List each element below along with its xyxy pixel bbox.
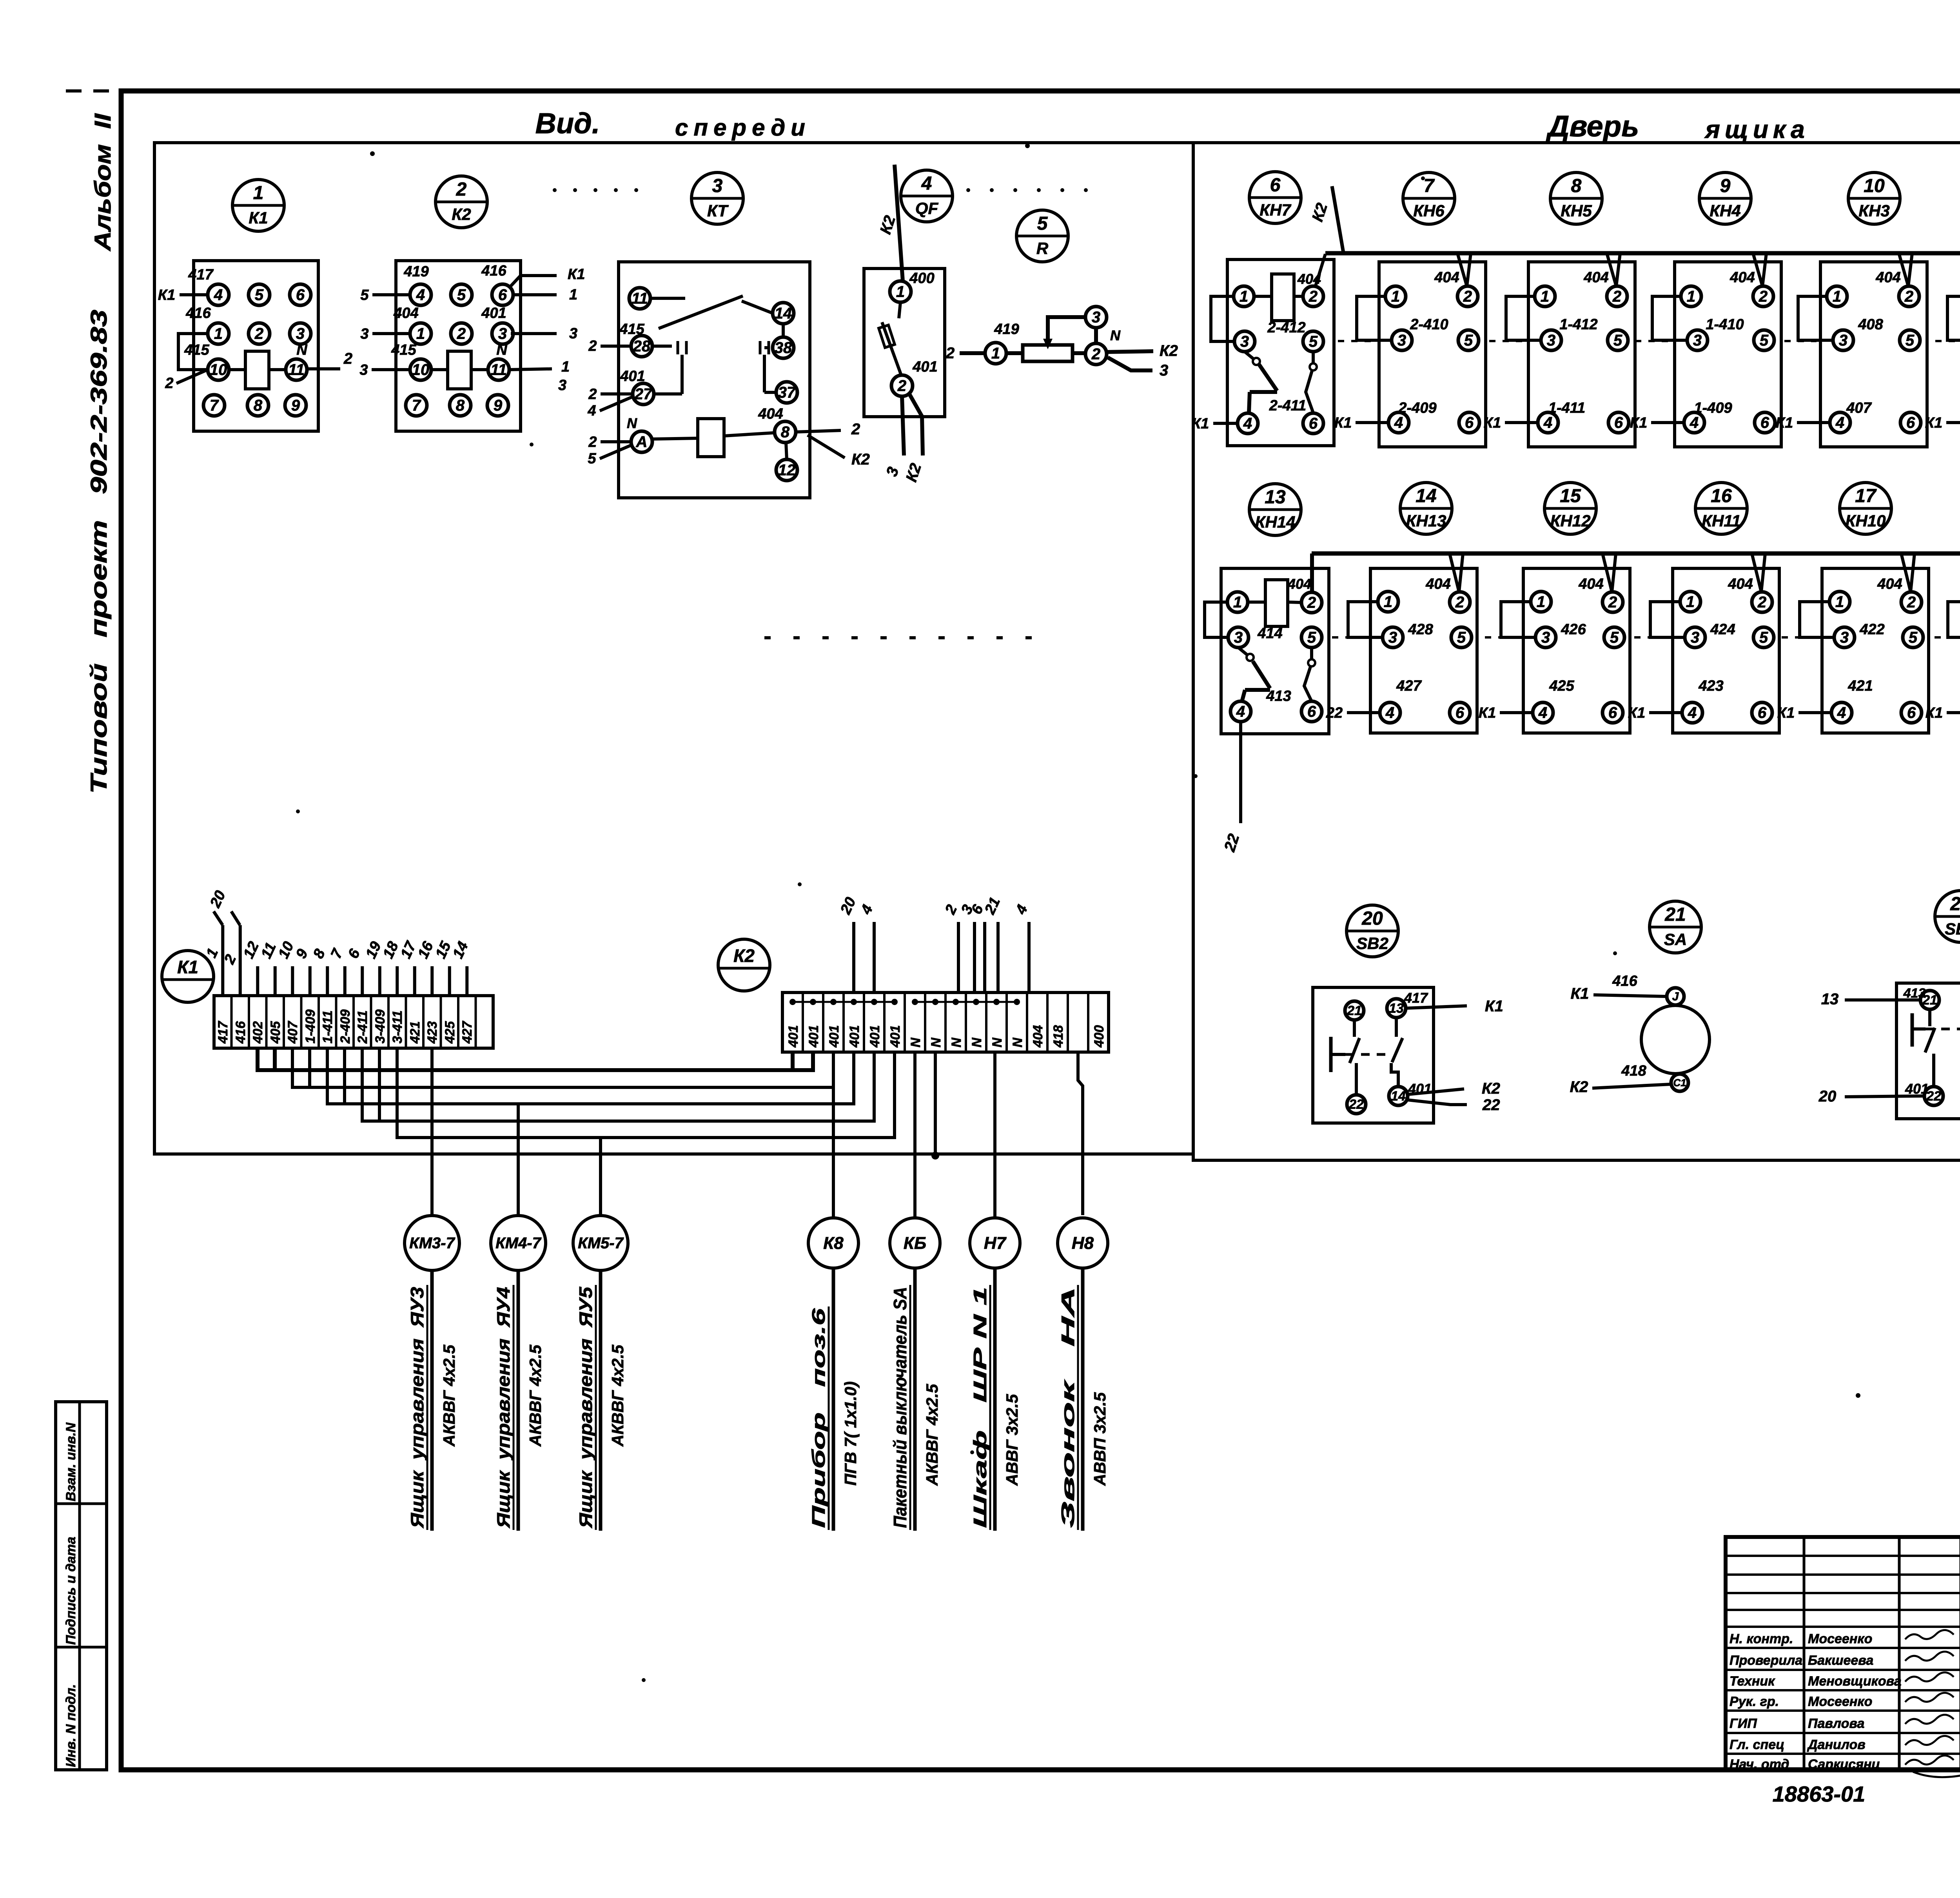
- svg-text:404: 404: [1728, 576, 1753, 592]
- svg-text:КН7: КН7: [1259, 201, 1291, 219]
- svg-text:Звонок НА: Звонок НА: [1058, 1287, 1078, 1528]
- svg-text:5: 5: [1307, 629, 1316, 646]
- svg-text:428: 428: [1408, 621, 1433, 638]
- svg-text:3: 3: [1234, 629, 1243, 646]
- left margin vertical text - project name: [86, 310, 112, 794]
- svg-text:3: 3: [558, 377, 566, 394]
- svg-text:КБ: КБ: [904, 1234, 926, 1253]
- svg-text:Нач. отд: Нач. отд: [1730, 1757, 1789, 1772]
- svg-text:3: 3: [1240, 333, 1249, 350]
- svg-text:К1: К1: [1926, 705, 1943, 721]
- svg-text:N: N: [496, 342, 508, 358]
- K2 wire lead 3 right: [511, 332, 557, 335]
- svg-text:1: 1: [569, 287, 577, 303]
- svg-text:22: 22: [1348, 1097, 1364, 1112]
- QF lead K2 bottom: [909, 393, 923, 455]
- svg-text:4: 4: [1243, 415, 1252, 432]
- svg-text:1: 1: [896, 283, 905, 301]
- QF lead 3 bottom: [902, 396, 904, 455]
- bus dip: [1752, 553, 1765, 592]
- button КН6 (pos 7): [1403, 172, 1455, 224]
- svg-text:QF: QF: [915, 199, 939, 218]
- svg-text:421: 421: [1847, 678, 1873, 694]
- svg-text:14: 14: [1416, 486, 1436, 506]
- svg-text:3: 3: [359, 362, 368, 378]
- svg-text:418: 418: [1051, 1025, 1066, 1048]
- svg-text:404: 404: [1730, 269, 1755, 286]
- svg-text:11: 11: [632, 290, 648, 307]
- svg-text:2: 2: [1612, 288, 1621, 305]
- svg-text:2: 2: [1904, 288, 1913, 305]
- svg-text:2: 2: [851, 421, 860, 438]
- button КН13 (pos 14): [1400, 483, 1452, 534]
- svg-text:401: 401: [1905, 1081, 1929, 1097]
- bus dip: [1450, 553, 1463, 592]
- svg-text:1-409: 1-409: [303, 1009, 318, 1043]
- cable КМ4-7: [491, 1216, 546, 1270]
- svg-text:Вид.: Вид.: [535, 107, 600, 140]
- svg-text:КМ4-7: КМ4-7: [495, 1235, 541, 1252]
- svg-text:Мосеенко: Мосеенко: [1808, 1694, 1872, 1709]
- circuit breaker QF (pos 4): [901, 170, 953, 222]
- svg-text:6: 6: [1270, 175, 1281, 196]
- svg-text:2-412: 2-412: [1267, 319, 1305, 336]
- svg-text:3: 3: [1160, 362, 1168, 379]
- svg-text:407: 407: [285, 1020, 300, 1044]
- svg-text:2-411: 2-411: [355, 1011, 370, 1044]
- svg-text:11: 11: [490, 361, 507, 379]
- svg-text:21: 21: [1664, 904, 1686, 925]
- svg-text:3-409: 3-409: [373, 1009, 388, 1043]
- K2 wire lead 1 3 right: [510, 369, 552, 370]
- svg-text:N: N: [929, 1037, 944, 1047]
- bus dip: [1753, 253, 1766, 286]
- svg-text:2: 2: [946, 345, 955, 362]
- svg-text:404: 404: [1877, 576, 1902, 592]
- svg-text:1: 1: [1835, 593, 1844, 611]
- bus dip KN7: [1316, 254, 1325, 286]
- svg-text:КН4: КН4: [1710, 201, 1741, 220]
- svg-text:404: 404: [1031, 1025, 1045, 1048]
- svg-text:1: 1: [1537, 593, 1545, 611]
- svg-text:Взам. инв.N: Взам. инв.N: [64, 1422, 78, 1501]
- svg-text:13: 13: [1821, 991, 1839, 1008]
- svg-text:1: 1: [1240, 288, 1248, 305]
- svg-text:К2: К2: [851, 451, 870, 468]
- svg-text:К2: К2: [1570, 1078, 1588, 1096]
- bus dip KN14: [1310, 553, 1314, 593]
- svg-text:6: 6: [296, 287, 305, 304]
- svg-text:401: 401: [847, 1025, 862, 1048]
- svg-text:Ящик управления ЯУ3: Ящик управления ЯУ3: [407, 1287, 427, 1529]
- svg-text:14: 14: [1391, 1089, 1406, 1104]
- svg-text:6: 6: [1608, 704, 1617, 722]
- wire bundle W3: [327, 1048, 854, 1104]
- svg-text:2: 2: [588, 434, 597, 450]
- bus dip: [1602, 553, 1616, 592]
- svg-text:2: 2: [1759, 288, 1768, 305]
- svg-text:3: 3: [1092, 309, 1100, 326]
- svg-text:4: 4: [1394, 414, 1403, 432]
- svg-text:К1: К1: [1192, 416, 1209, 432]
- svg-text:К2: К2: [452, 205, 471, 223]
- KT lead 8 right: [796, 430, 841, 432]
- svg-text:Ящик управления ЯУ4: Ящик управления ЯУ4: [493, 1287, 514, 1528]
- KT contact wiring: [650, 297, 685, 300]
- svg-text:2: 2: [1463, 288, 1472, 305]
- svg-text:Типовой проект 902-2-369.8: Типовой проект 902-2-369.83: [86, 310, 112, 794]
- wire drop N to frame: [934, 1052, 937, 1156]
- svg-text:Альбом II: Альбом II: [90, 113, 116, 252]
- cable Н8: [1058, 1218, 1108, 1268]
- left margin stamp box: [56, 1402, 107, 1770]
- svg-text:10: 10: [412, 361, 430, 379]
- svg-text:401: 401: [620, 368, 645, 385]
- svg-text:К1: К1: [1571, 985, 1589, 1002]
- svg-text:SB2: SB2: [1356, 934, 1388, 953]
- svg-text:К1: К1: [1776, 415, 1793, 431]
- svg-text:1: 1: [1384, 593, 1392, 611]
- button КН4 (pos 9): [1699, 172, 1751, 224]
- svg-text:404: 404: [1425, 576, 1450, 592]
- svg-text:Подпись и дата: Подпись и дата: [64, 1537, 78, 1645]
- svg-text:Гл. спец: Гл. спец: [1730, 1737, 1784, 1752]
- K1 strip pin wires: [221, 925, 224, 996]
- push button SB2 (pos 20): [1347, 905, 1398, 957]
- svg-text:1: 1: [561, 359, 570, 375]
- KN14 lead 22 bottom: [1239, 722, 1242, 823]
- svg-text:5: 5: [255, 287, 264, 304]
- svg-text:6: 6: [1465, 414, 1474, 432]
- K2 strip top wires: [852, 922, 855, 993]
- svg-text:11: 11: [288, 361, 305, 379]
- svg-text:КН11: КН11: [1702, 512, 1741, 530]
- bus dip: [1457, 253, 1471, 286]
- wire bus row 2: [1312, 552, 1960, 556]
- svg-text:37: 37: [778, 384, 796, 401]
- svg-text:К2: К2: [1482, 1080, 1500, 1097]
- svg-text:2-409: 2-409: [1398, 400, 1436, 416]
- svg-text:5: 5: [1760, 332, 1769, 349]
- svg-text:Саркисянц: Саркисянц: [1808, 1757, 1880, 1772]
- svg-text:N: N: [990, 1037, 1005, 1047]
- svg-text:Мосеенко: Мосеенко: [1808, 1631, 1872, 1646]
- svg-text:427: 427: [460, 1020, 475, 1044]
- svg-text:N: N: [1010, 1037, 1025, 1047]
- button КН10 (pos 17): [1840, 483, 1891, 534]
- svg-text:400: 400: [909, 270, 934, 287]
- svg-text:1-409: 1-409: [1694, 400, 1732, 416]
- svg-text:К1: К1: [1630, 415, 1648, 431]
- svg-text:405: 405: [268, 1021, 283, 1044]
- svg-text:7: 7: [412, 397, 421, 414]
- svg-text:8: 8: [456, 397, 465, 414]
- svg-text:Павлова: Павлова: [1808, 1716, 1864, 1731]
- svg-text:425: 425: [1549, 678, 1574, 694]
- svg-text:КН6: КН6: [1413, 201, 1445, 220]
- svg-text:402: 402: [250, 1021, 265, 1044]
- panel box - door: [1193, 143, 1960, 1160]
- svg-text:КТ: КТ: [707, 201, 729, 220]
- svg-text:спереди: спереди: [675, 114, 811, 141]
- svg-text:К1: К1: [249, 209, 268, 227]
- svg-text:КН14: КН14: [1255, 513, 1296, 531]
- svg-text:3: 3: [1840, 629, 1849, 646]
- resistor R (pos 5): [1016, 210, 1068, 262]
- svg-text:1-411: 1-411: [1548, 400, 1585, 416]
- svg-text:20: 20: [1818, 1088, 1837, 1105]
- SB2 lead 22: [1408, 1100, 1467, 1105]
- svg-text:2: 2: [1455, 594, 1464, 611]
- button КН3 (pos 10): [1848, 172, 1900, 224]
- svg-text:1: 1: [1391, 288, 1400, 305]
- button КН5 (pos 8): [1550, 172, 1602, 224]
- svg-text:27: 27: [634, 386, 653, 403]
- svg-text:404: 404: [1287, 576, 1311, 592]
- cable К8: [808, 1218, 858, 1268]
- svg-text:408: 408: [1858, 316, 1883, 333]
- svg-text:КН12: КН12: [1550, 512, 1591, 530]
- bus dip: [1899, 253, 1912, 286]
- svg-text:21: 21: [1347, 1003, 1362, 1018]
- svg-text:7: 7: [210, 397, 219, 414]
- svg-text:К8: К8: [823, 1234, 844, 1253]
- svg-text:6: 6: [498, 287, 507, 304]
- svg-text:Прибор поз.6: Прибор поз.6: [808, 1308, 829, 1528]
- svg-text:SB1: SB1: [1945, 920, 1960, 938]
- svg-text:3: 3: [1691, 629, 1699, 646]
- svg-text:16: 16: [1711, 486, 1732, 506]
- svg-text:404: 404: [1583, 269, 1608, 286]
- svg-text:401: 401: [481, 305, 506, 321]
- svg-text:2: 2: [1308, 288, 1318, 305]
- svg-text:22: 22: [1326, 705, 1343, 721]
- wire drop to KM4-7: [517, 1104, 520, 1216]
- svg-text:Шкаф ШР N 1: Шкаф ШР N 1: [970, 1287, 990, 1528]
- wire bundle W1: [258, 1048, 813, 1070]
- svg-text:10: 10: [210, 361, 227, 379]
- SB2 lead K1: [1406, 1006, 1467, 1008]
- svg-text:КН5: КН5: [1561, 201, 1592, 220]
- KN14 jumper 1-3: [1205, 602, 1228, 637]
- svg-text:2: 2: [1307, 594, 1316, 611]
- svg-text:417: 417: [1404, 990, 1428, 1006]
- svg-text:4: 4: [1837, 704, 1846, 722]
- svg-text:422: 422: [1859, 621, 1884, 638]
- svg-text:1-412: 1-412: [1559, 316, 1597, 333]
- svg-text:N: N: [296, 342, 308, 358]
- svg-text:419: 419: [994, 321, 1019, 338]
- wire bundle W4: [362, 1048, 874, 1121]
- svg-text:6: 6: [1906, 414, 1915, 432]
- left margin vertical text - album: [90, 113, 116, 252]
- KN7 jumper 1-3: [1211, 296, 1234, 341]
- svg-text:К1: К1: [1484, 415, 1501, 431]
- svg-text:4: 4: [587, 403, 596, 419]
- svg-text:1: 1: [1233, 594, 1242, 611]
- svg-text:5: 5: [457, 287, 466, 304]
- svg-text:5: 5: [1613, 332, 1622, 349]
- svg-text:2-411: 2-411: [1269, 397, 1306, 414]
- svg-text:416: 416: [1612, 973, 1637, 989]
- svg-text:423: 423: [1698, 678, 1723, 694]
- svg-text:404: 404: [1578, 576, 1603, 592]
- svg-text:4: 4: [1538, 704, 1547, 722]
- svg-text:10: 10: [1864, 176, 1885, 196]
- cable КБ: [890, 1218, 940, 1268]
- cable КМ5-7: [573, 1216, 628, 1270]
- svg-text:13: 13: [1265, 487, 1286, 508]
- svg-text:1-410: 1-410: [1706, 316, 1744, 333]
- svg-text:4: 4: [1835, 414, 1844, 432]
- relay socket K1 (pos 1): [232, 180, 284, 231]
- svg-text:3: 3: [1693, 332, 1702, 349]
- svg-text:3: 3: [1397, 332, 1406, 349]
- svg-text:Н. контр.: Н. контр.: [1730, 1631, 1793, 1646]
- svg-text:404: 404: [1875, 269, 1900, 286]
- button КН12 (pos 15): [1544, 483, 1596, 534]
- svg-text:К2: К2: [733, 945, 755, 966]
- svg-text:9: 9: [291, 397, 300, 414]
- svg-text:20: 20: [1361, 908, 1383, 929]
- svg-text:9: 9: [494, 397, 503, 414]
- button KN7 (pos 6): [1249, 172, 1301, 223]
- svg-text:2: 2: [1091, 346, 1100, 363]
- svg-text:2: 2: [588, 338, 597, 354]
- KT coil: [652, 438, 698, 439]
- wire drop to K8: [832, 1052, 835, 1087]
- svg-text:1: 1: [253, 183, 264, 203]
- svg-text:5: 5: [1909, 629, 1918, 646]
- svg-text:1: 1: [1541, 288, 1549, 305]
- svg-text:КМ3-7: КМ3-7: [409, 1235, 455, 1252]
- svg-text:416: 416: [233, 1021, 248, 1044]
- terminal strip K2: [718, 939, 770, 991]
- wire drop to H8: [1078, 1052, 1083, 1215]
- svg-text:КН3: КН3: [1858, 201, 1890, 220]
- svg-text:3: 3: [1541, 629, 1550, 646]
- svg-text:Ящик управления ЯУ5: Ящик управления ЯУ5: [575, 1286, 596, 1528]
- svg-text:6: 6: [1760, 414, 1769, 432]
- wire bundle W5: [397, 1048, 895, 1138]
- K2 strip jumper dots: [789, 999, 796, 1005]
- svg-text:КН13: КН13: [1406, 512, 1446, 530]
- svg-text:3: 3: [1839, 332, 1847, 349]
- svg-text:4: 4: [1543, 414, 1552, 432]
- svg-text:2: 2: [1907, 594, 1916, 611]
- svg-text:Дверь: Дверь: [1546, 110, 1639, 143]
- svg-text:1: 1: [1687, 288, 1695, 305]
- svg-text:К2: К2: [1160, 342, 1178, 359]
- svg-text:5: 5: [1464, 332, 1473, 349]
- wire drop to KM3-7: [430, 1048, 434, 1216]
- K2 wire lead 1 right: [512, 293, 557, 296]
- svg-text:417: 417: [188, 267, 214, 283]
- svg-text:4: 4: [1690, 414, 1699, 432]
- svg-text:3: 3: [1547, 332, 1555, 349]
- terminal strip K1: [162, 951, 214, 1002]
- relay socket K2 (pos 2): [436, 176, 487, 228]
- svg-text:К1: К1: [1628, 705, 1646, 721]
- svg-text:N: N: [908, 1037, 923, 1047]
- K1 wire lead 2 right: [307, 367, 340, 370]
- wire drop to KB: [913, 1052, 916, 1218]
- dotted row top: [553, 188, 557, 192]
- svg-text:1: 1: [214, 325, 223, 343]
- SB2 lead K2: [1408, 1089, 1464, 1094]
- svg-text:2-409: 2-409: [338, 1009, 353, 1044]
- svg-text:3: 3: [1388, 629, 1397, 646]
- svg-text:38: 38: [775, 339, 792, 357]
- svg-text:КМ5-7: КМ5-7: [578, 1235, 624, 1252]
- svg-text:424: 424: [1710, 621, 1735, 638]
- svg-text:416: 416: [481, 263, 506, 279]
- svg-text:Рук. гр.: Рук. гр.: [1730, 1694, 1779, 1709]
- svg-text:N: N: [1110, 327, 1121, 343]
- svg-text:5: 5: [588, 450, 596, 467]
- svg-text:425: 425: [443, 1021, 457, 1044]
- svg-text:4: 4: [921, 173, 932, 194]
- svg-text:АВВГ 3х2.5: АВВГ 3х2.5: [1003, 1394, 1021, 1486]
- svg-text:426: 426: [1561, 621, 1586, 638]
- svg-text:3: 3: [296, 325, 305, 343]
- svg-text:1: 1: [1686, 593, 1695, 611]
- mechanical link dashes row 1: [1338, 340, 1375, 342]
- mechanical link dashes row 2: [1332, 636, 1367, 639]
- button КН11 (pos 16): [1695, 483, 1747, 534]
- svg-text:2: 2: [588, 386, 597, 403]
- QF lead K2 top: [895, 165, 903, 281]
- svg-text:Бакшеева: Бакшеева: [1808, 1653, 1873, 1668]
- svg-text:J: J: [1672, 990, 1679, 1003]
- svg-text:401: 401: [867, 1025, 882, 1048]
- cable Н7: [970, 1218, 1020, 1268]
- svg-text:6: 6: [1307, 703, 1316, 720]
- svg-text:17: 17: [1855, 486, 1877, 506]
- svg-text:К1: К1: [1479, 705, 1496, 721]
- wire drop to H7: [993, 1052, 996, 1218]
- svg-text:АКВВГ 4х2.5: АКВВГ 4х2.5: [440, 1345, 458, 1447]
- svg-text:3: 3: [498, 325, 507, 343]
- svg-text:1: 1: [416, 325, 425, 343]
- svg-text:417: 417: [216, 1020, 230, 1044]
- svg-text:418: 418: [1621, 1063, 1646, 1079]
- cable КМ3-7: [405, 1216, 459, 1270]
- signatures: [1905, 1630, 1954, 1639]
- packet switch SA (pos 21): [1650, 901, 1701, 953]
- svg-text:1-411: 1-411: [320, 1011, 335, 1043]
- svg-text:421: 421: [408, 1021, 423, 1044]
- svg-text:8: 8: [781, 424, 790, 441]
- svg-text:4: 4: [1385, 704, 1394, 722]
- svg-text:Данилов: Данилов: [1807, 1737, 1866, 1752]
- svg-text:3: 3: [712, 176, 723, 196]
- svg-text:5: 5: [1759, 629, 1768, 646]
- svg-text:28: 28: [633, 338, 651, 355]
- svg-text:407: 407: [1846, 400, 1872, 416]
- svg-text:N: N: [627, 415, 637, 431]
- svg-text:Н7: Н7: [984, 1234, 1007, 1253]
- K2 wire lead K1 right: [509, 276, 557, 288]
- button KN14 (pos 13): [1249, 484, 1301, 535]
- svg-text:4: 4: [1688, 704, 1697, 722]
- bus dip: [1607, 253, 1620, 286]
- svg-text:8: 8: [1571, 176, 1582, 196]
- svg-text:ПГВ 7( 1х1.0): ПГВ 7( 1х1.0): [841, 1381, 860, 1486]
- panel box - front view: [154, 143, 1193, 1154]
- svg-text:401: 401: [806, 1025, 821, 1048]
- svg-text:14: 14: [775, 305, 792, 322]
